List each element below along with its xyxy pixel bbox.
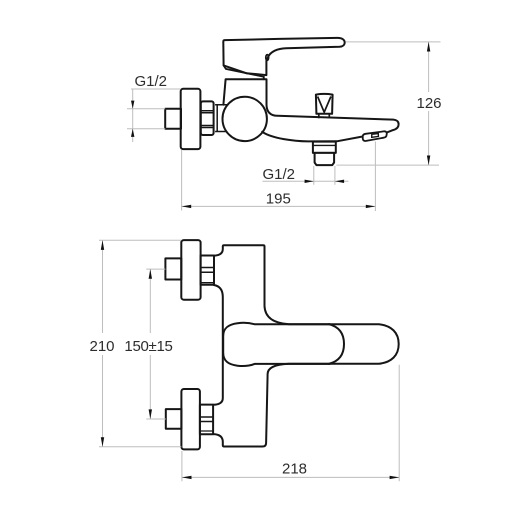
svg-text:195: 195: [266, 190, 291, 207]
svg-text:G1/2: G1/2: [263, 166, 296, 183]
svg-text:126: 126: [416, 95, 441, 112]
svg-text:150±15: 150±15: [124, 338, 172, 355]
svg-text:218: 218: [282, 461, 307, 478]
svg-text:G1/2: G1/2: [135, 73, 168, 90]
svg-text:210: 210: [89, 338, 114, 355]
